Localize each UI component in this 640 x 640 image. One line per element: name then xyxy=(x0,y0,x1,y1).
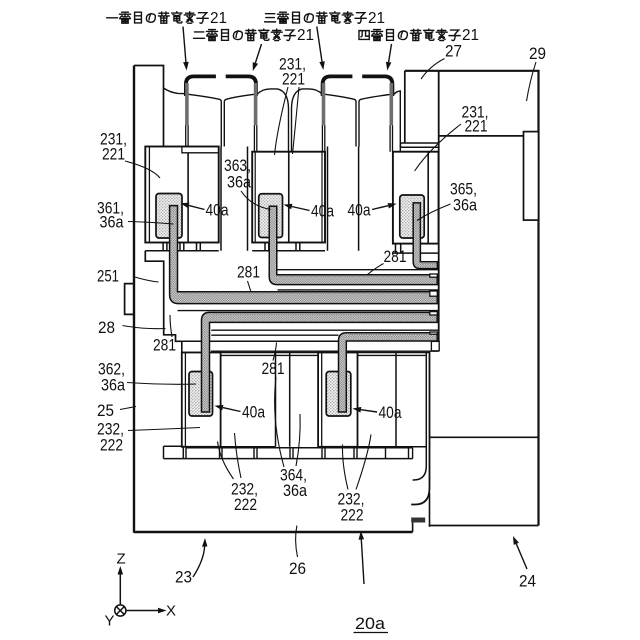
svg-text:21: 21 xyxy=(368,10,385,27)
svg-text:222: 222 xyxy=(234,495,257,514)
svg-text:36a: 36a xyxy=(227,173,251,192)
svg-text:40a: 40a xyxy=(206,201,229,220)
svg-text:221: 221 xyxy=(465,117,488,136)
svg-text:36a: 36a xyxy=(101,376,125,395)
svg-text:26: 26 xyxy=(289,559,306,578)
svg-text:21: 21 xyxy=(462,27,479,44)
svg-text:21: 21 xyxy=(297,27,314,44)
svg-text:221: 221 xyxy=(102,145,125,164)
svg-text:222: 222 xyxy=(341,506,364,525)
svg-text:40a: 40a xyxy=(242,403,265,422)
svg-text:20a: 20a xyxy=(355,614,386,633)
svg-text:40a: 40a xyxy=(348,201,371,220)
svg-text:24: 24 xyxy=(519,572,536,591)
svg-text:281: 281 xyxy=(262,359,285,378)
svg-text:281: 281 xyxy=(237,263,260,282)
svg-text:36a: 36a xyxy=(283,481,307,500)
svg-text:23: 23 xyxy=(175,568,192,587)
svg-text:222: 222 xyxy=(100,436,123,455)
svg-text:25: 25 xyxy=(97,401,114,420)
svg-text:21: 21 xyxy=(210,10,227,27)
svg-text:27: 27 xyxy=(445,42,462,61)
svg-text:X: X xyxy=(166,603,176,620)
svg-text:281: 281 xyxy=(153,336,176,355)
svg-text:40a: 40a xyxy=(379,403,402,422)
svg-text:28: 28 xyxy=(98,318,115,337)
svg-text:40a: 40a xyxy=(311,202,334,221)
svg-text:221: 221 xyxy=(282,70,305,89)
svg-text:281: 281 xyxy=(384,247,407,266)
svg-text:29: 29 xyxy=(529,44,546,63)
svg-text:251: 251 xyxy=(97,267,119,286)
svg-text:Z: Z xyxy=(117,551,126,568)
svg-text:36a: 36a xyxy=(453,196,477,215)
svg-text:Y: Y xyxy=(105,613,115,630)
svg-text:36a: 36a xyxy=(100,213,124,232)
